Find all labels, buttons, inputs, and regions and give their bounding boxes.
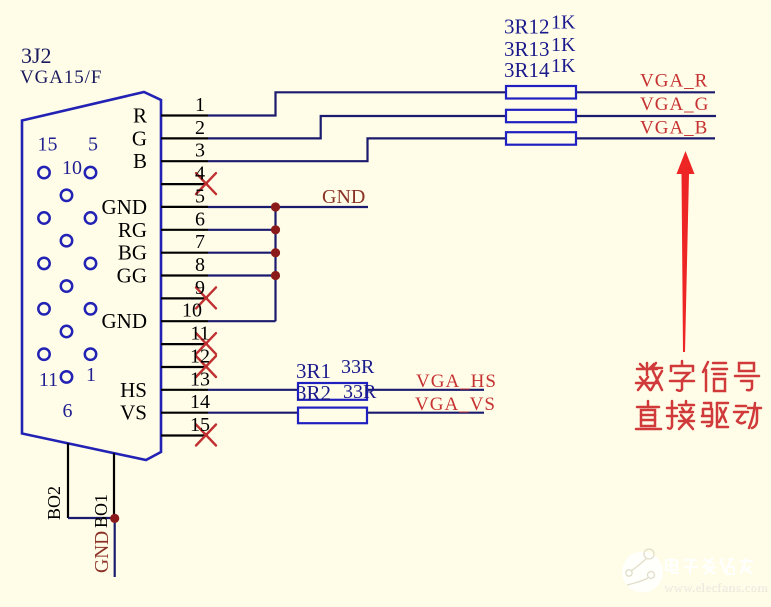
svg-text:2: 2 — [195, 117, 205, 139]
svg-text:3R12: 3R12 — [504, 15, 550, 39]
svg-text:VGA_R: VGA_R — [640, 70, 708, 91]
svg-text:33R: 33R — [341, 356, 375, 378]
svg-text:1K: 1K — [551, 55, 576, 77]
svg-text:11: 11 — [190, 323, 209, 345]
svg-text:VGA_HS: VGA_HS — [416, 371, 497, 392]
svg-text:7: 7 — [195, 231, 205, 253]
svg-text:3: 3 — [195, 140, 205, 162]
svg-text:RG: RG — [118, 218, 147, 242]
svg-text:1: 1 — [86, 364, 96, 386]
svg-text:GND: GND — [92, 531, 113, 573]
svg-text:12: 12 — [190, 346, 210, 368]
svg-text:B: B — [133, 149, 147, 173]
svg-text:1: 1 — [195, 94, 205, 116]
svg-text:BO1: BO1 — [91, 494, 111, 528]
svg-text:VGA_VS: VGA_VS — [415, 394, 496, 415]
svg-text:3R1: 3R1 — [296, 359, 331, 383]
svg-text:5: 5 — [88, 134, 98, 156]
svg-text:10: 10 — [62, 157, 82, 179]
svg-text:GG: GG — [117, 264, 147, 288]
svg-text:14: 14 — [190, 391, 210, 413]
svg-text:VGA_B: VGA_B — [640, 117, 708, 138]
svg-text:3R2: 3R2 — [296, 381, 331, 405]
svg-text:VS: VS — [120, 401, 147, 425]
svg-text:15: 15 — [38, 134, 58, 156]
svg-text:4: 4 — [195, 163, 205, 185]
svg-text:GND: GND — [102, 309, 148, 333]
svg-text:3J2: 3J2 — [21, 43, 52, 68]
svg-text:9: 9 — [195, 277, 205, 299]
svg-text:G: G — [132, 126, 147, 150]
svg-text:8: 8 — [195, 254, 205, 276]
svg-text:13: 13 — [190, 368, 210, 390]
svg-text:3R14: 3R14 — [504, 58, 550, 82]
svg-text:VGA_G: VGA_G — [640, 94, 709, 115]
svg-text:BO2: BO2 — [44, 486, 64, 520]
svg-text:33R: 33R — [343, 381, 377, 403]
svg-text:1K: 1K — [551, 34, 576, 56]
svg-text:GND: GND — [102, 195, 148, 219]
svg-text:6: 6 — [63, 400, 73, 422]
svg-text:5: 5 — [195, 185, 205, 207]
svg-text:VGA15/F: VGA15/F — [20, 67, 102, 88]
svg-text:1K: 1K — [551, 12, 576, 34]
svg-text:www.elecfans.com: www.elecfans.com — [663, 580, 767, 595]
svg-text:15: 15 — [190, 414, 210, 436]
svg-text:10: 10 — [182, 300, 202, 322]
svg-text:GND: GND — [322, 186, 365, 208]
svg-text:11: 11 — [39, 369, 58, 391]
svg-text:R: R — [133, 104, 147, 128]
svg-text:HS: HS — [120, 378, 147, 402]
svg-text:BG: BG — [118, 241, 147, 265]
svg-text:6: 6 — [195, 208, 205, 230]
